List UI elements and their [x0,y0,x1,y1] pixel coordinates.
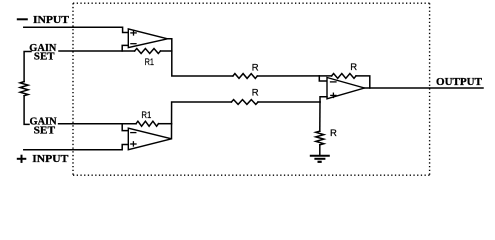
svg-text:R1: R1 [141,110,151,120]
op-amp U2 [128,128,171,150]
node minus-input terminal dash [18,18,27,20]
U3 minus sign [331,81,337,83]
wire R1 to U1 output leg [161,50,172,52]
wire R to ground [319,145,321,155]
resistor R1 (U1 feedback) [135,49,161,54]
resistor R (top input of U3) [233,74,257,79]
U2 minus sign [131,132,136,134]
wire +INPUT to U2 noninverting step [24,145,129,150]
resistor RG gain-set (vertical) [20,82,28,96]
U1 plus sign vertical [133,30,135,35]
wire U2 output up to bottom summing line [172,102,232,139]
op-amp U3 [327,78,364,99]
wire -INPUT to U1 noninverting step [24,27,129,32]
wire U3 noninverting stub and node to ground resistor [320,97,327,102]
svg-text:SET: SET [34,50,55,62]
wire U3 output to OUTPUT terminal [364,87,483,89]
resistor R (bottom input of U3) [231,100,258,105]
ground [311,155,329,157]
wire U2 inverting stub [122,124,128,131]
U3 plus sign [331,94,336,96]
svg-text:R: R [330,128,337,139]
wire RG to bottom gain-set bracket [24,96,29,125]
wire gain-set bottom to U2 inverting node [59,123,136,125]
U1 minus sign [131,43,136,45]
svg-text:R1: R1 [145,57,154,67]
svg-text:R: R [252,88,259,99]
U2 plus sign [131,143,136,145]
wire U1 inverting stub [122,45,128,51]
resistor R (to ground) [319,102,321,131]
U2 plus sign vertical [132,142,134,146]
wire R to U3 inverting node [257,75,331,77]
svg-text:INPUT: INPUT [33,15,69,26]
svg-text:INPUT: INPUT [32,154,68,165]
wire U1 output down to top summing line [168,39,233,76]
svg-text:R: R [252,63,259,74]
wire U3 inverting stub [319,76,327,81]
wire gain-set top to U1 inverting node [59,50,135,52]
resistor R (U3 feedback) [332,74,356,79]
node plus-input terminal plus sign [18,158,26,160]
dashed enclosure border [73,3,430,175]
U3 plus sign vertical [332,93,334,97]
wire GAIN SET top bracket [24,52,31,82]
svg-text:OUTPUT: OUTPUT [436,77,482,88]
wire R1 to U2 output leg [159,123,172,125]
resistor R1 (U2 feedback) [136,121,159,126]
wire feedback R to output node [356,76,370,88]
wire R to U3 noninverting node [258,101,320,103]
op-amp U1 [128,29,167,48]
svg-text:R: R [350,62,357,73]
U1 plus sign [131,32,136,34]
svg-text:SET: SET [34,124,56,136]
